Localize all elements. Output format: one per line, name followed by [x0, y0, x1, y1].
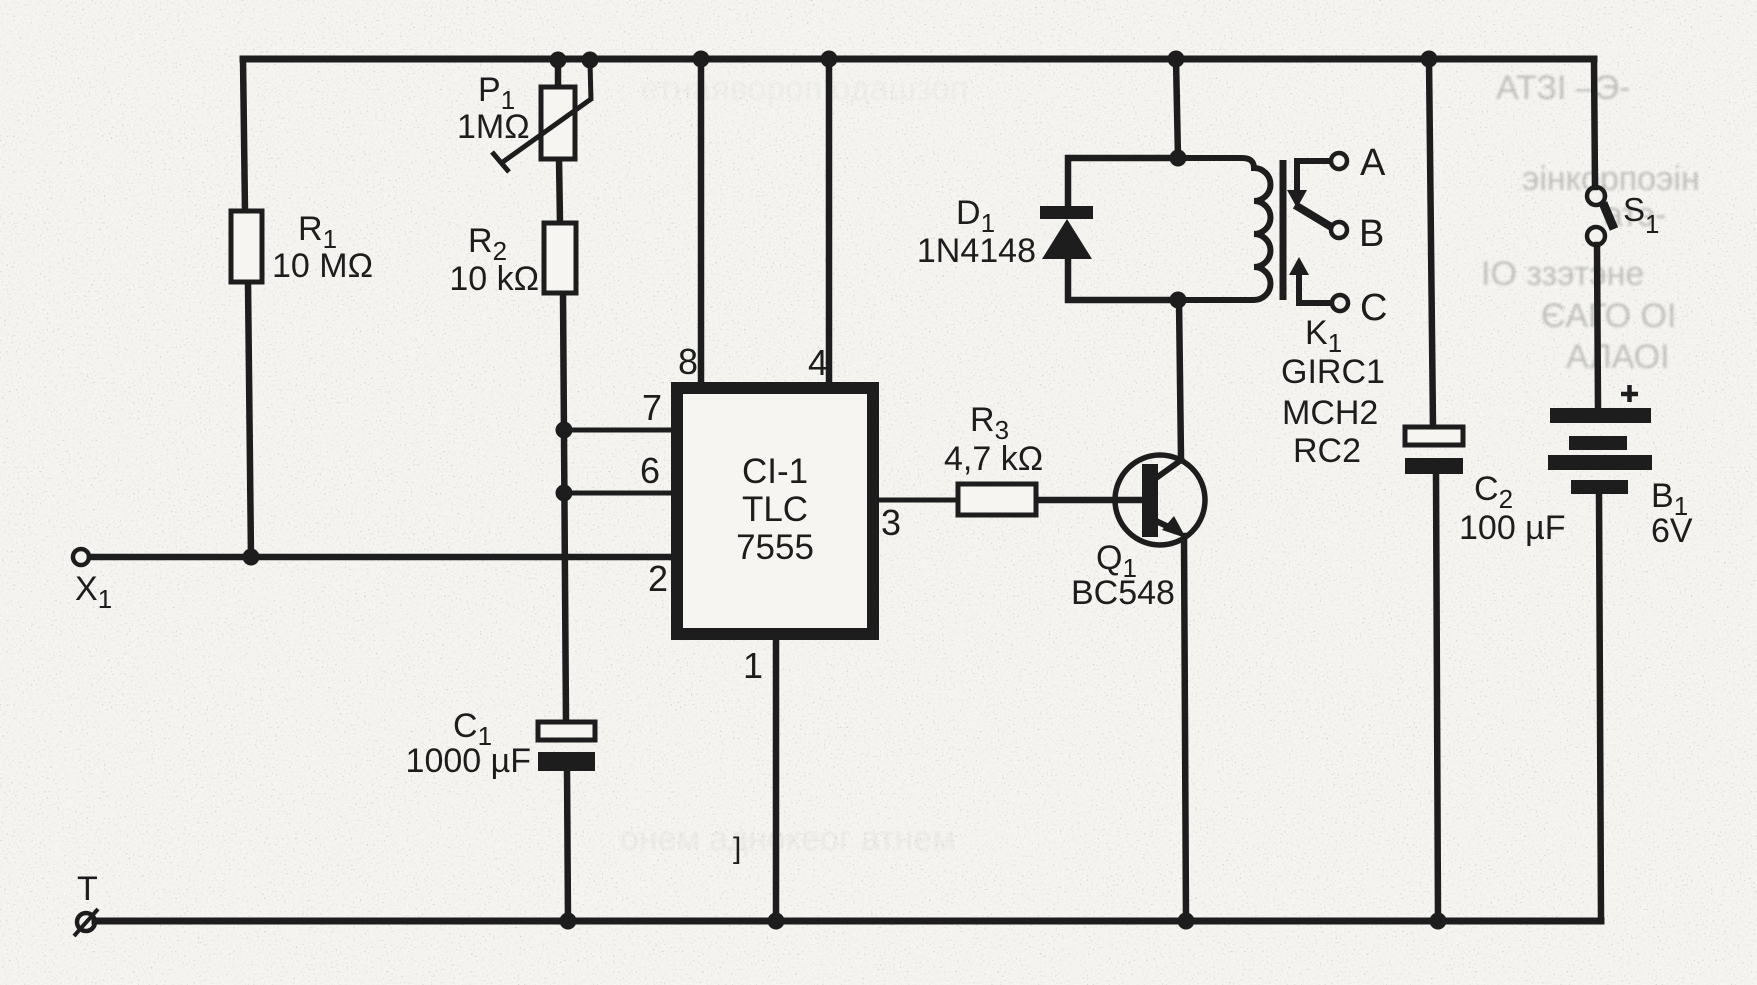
resistor R2 [544, 223, 576, 293]
relay K1 core bar [1280, 160, 1287, 300]
resistor R3 [958, 484, 1036, 515]
node: junction dot P1 top [550, 52, 567, 69]
svg-text:эінкорпоэін: эінкорпоэін [1522, 160, 1700, 198]
svg-text:4: 4 [808, 342, 828, 383]
node: junction dot pin7/R2 [556, 422, 573, 439]
wire R3 to Q1 base [1036, 497, 1143, 504]
wire C1 bottom to rail [567, 769, 568, 921]
relay contact A [1331, 153, 1347, 169]
svg-text:ІО ззэтэне: ІО ззэтэне [1481, 255, 1644, 293]
svg-text:10 MΩ: 10 MΩ [272, 247, 373, 285]
wire left branch lower (R1 to X1 wire) [248, 282, 251, 558]
relay contact C [1332, 295, 1348, 311]
wire R2 bottom to C1 top [563, 293, 566, 724]
wire top rail to relay coil node [1176, 59, 1178, 158]
node: junction dot pin1 bottom rail [768, 913, 785, 930]
svg-text:АЛАОІ: АЛАОІ [1566, 338, 1670, 376]
svg-text:1N4148: 1N4148 [917, 232, 1036, 270]
svg-text:BC548: BC548 [1071, 574, 1175, 612]
node: junction dot C2 rail [1421, 51, 1438, 68]
svg-text:2: 2 [648, 558, 668, 599]
faint page bleed-through text (back side of page) [620, 69, 1700, 858]
potentiometer P1 [541, 87, 575, 159]
wire battery to bottom rail [1599, 494, 1601, 921]
svg-text:A: A [1360, 142, 1386, 184]
wire pin 1 [773, 639, 780, 921]
svg-text:T: T [77, 870, 98, 908]
relay K1 coil [1186, 158, 1271, 300]
node: junction dot relay branch rail [1168, 51, 1185, 68]
wire C2 branch lower [1436, 472, 1438, 921]
svg-text:8: 8 [678, 341, 698, 382]
wire left branch upper (rail to R1) [243, 59, 245, 211]
transistor Q1 BC548 [1115, 455, 1205, 545]
node: junction dot emitter bottom rail [1178, 913, 1195, 930]
svg-text:3: 3 [881, 502, 901, 543]
svg-text:6V: 6V [1651, 512, 1693, 550]
wire Q1 collector up to relay [1179, 300, 1181, 458]
relay armature [1295, 205, 1333, 228]
svg-text:B: B [1359, 213, 1384, 255]
capacitor C1 [538, 722, 595, 740]
svg-text:7555: 7555 [736, 528, 814, 567]
node: junction dot C1 bottom rail [560, 913, 577, 930]
svg-text:GIRC1: GIRC1 [1281, 353, 1385, 391]
svg-text:ЄАГО ОІ: ЄАГО ОІ [1541, 297, 1676, 335]
svg-text:CI-1: CI-1 [742, 452, 808, 491]
node: junction dot C2 bottom rail [1430, 913, 1447, 930]
node: junction dot pin 4 rail [821, 51, 838, 68]
svg-text:АТЗІ –Э-: АТЗІ –Э- [1496, 69, 1631, 107]
wire P1 top lead [555, 59, 562, 90]
switch S1 [1587, 187, 1605, 205]
svg-text:10 kΩ: 10 kΩ [449, 260, 539, 298]
node: junction dot P1 wiper [582, 52, 599, 69]
capacitor C2 [1405, 427, 1463, 445]
svg-text:4,7 kΩ: 4,7 kΩ [944, 440, 1043, 478]
wire C2 branch upper [1429, 59, 1433, 427]
svg-text:етнаявороп одашзоп: етнаявороп одашзоп [640, 70, 968, 108]
wire top rail [243, 56, 1594, 63]
svg-text:MCH2: MCH2 [1282, 394, 1378, 432]
wire D1 bottom horizontal [1068, 258, 1178, 300]
relay contact B [1331, 222, 1347, 238]
svg-text:онем аднокеог атнем: онем аднокеог атнем [620, 820, 956, 858]
svg-text:1000 µF: 1000 µF [406, 742, 531, 780]
node: junction dot X1/R1 [243, 549, 260, 566]
wire pin 8 [698, 59, 705, 385]
resistor R1 [231, 211, 262, 282]
wire pin 7 [564, 428, 677, 433]
node: junction dot pin 8 rail [693, 51, 710, 68]
svg-text:1: 1 [743, 645, 763, 686]
wire pin 4 [826, 59, 833, 385]
svg-text:]: ] [733, 832, 741, 865]
wire pin 3 to R3 [877, 498, 958, 503]
svg-text:1MΩ: 1MΩ [457, 108, 530, 146]
wire D1 top horizontal [1068, 158, 1178, 207]
wire S1 to battery [1597, 245, 1598, 409]
terminal T [77, 913, 95, 931]
wire bottom rail [95, 918, 1601, 925]
svg-text:100 µF: 100 µF [1459, 509, 1566, 547]
svg-text:RC2: RC2 [1293, 432, 1361, 470]
svg-text:6: 6 [640, 450, 660, 491]
diode D1 1N4148 [1040, 206, 1093, 219]
wire Q1 emitter down to rail [1184, 536, 1186, 921]
node: junction dot pin6/R2 [556, 485, 573, 502]
node: junction dot coil bottom [1170, 292, 1187, 309]
IC CI-1 (TLC 7555 timer) [677, 388, 873, 634]
battery B1 [1550, 408, 1651, 423]
svg-text:C: C [1360, 287, 1387, 329]
wire right branch S1 upper [1594, 59, 1595, 187]
node: junction dot coil top [1170, 150, 1187, 167]
wire P1 to R2 [559, 158, 560, 223]
svg-text:TLC: TLC [742, 490, 808, 529]
svg-text:7: 7 [642, 387, 662, 428]
terminal X1 [73, 549, 89, 565]
wire pin 6 [564, 491, 677, 496]
wire X1 to pin 2 [90, 554, 677, 561]
